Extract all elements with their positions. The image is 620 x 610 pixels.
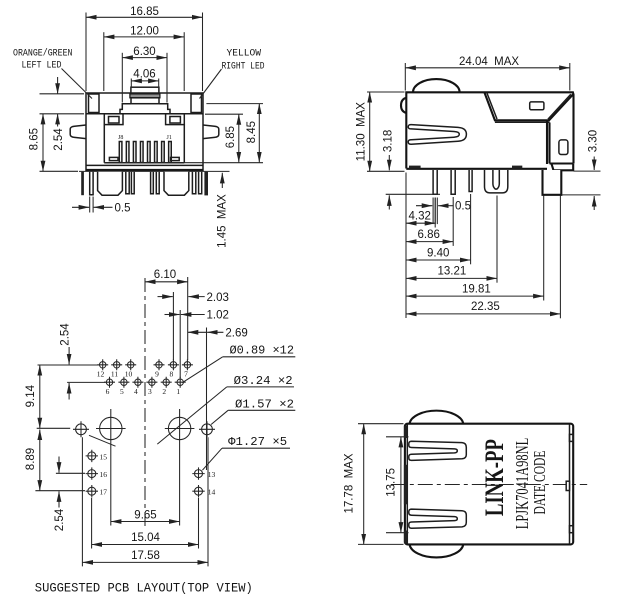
left reference line: [405, 173, 407, 319]
chamfer hole: [530, 102, 544, 110]
hole D1.57 right: [202, 424, 213, 435]
pin holes row 1 and 2: [97, 359, 193, 396]
svg-text:12: 12: [97, 370, 105, 379]
dim 8.89: [35, 490, 85, 492]
top bump arc: [410, 411, 464, 424]
bottom bump arc: [410, 544, 464, 557]
contact comb 8 fingers: [119, 142, 171, 163]
shield legs thin pair A: [126, 172, 134, 194]
right wing: [203, 125, 219, 139]
svg-text:9.40: 9.40: [427, 247, 449, 259]
svg-text:10: 10: [125, 370, 133, 379]
svg-text:8.45: 8.45: [246, 121, 258, 143]
svg-text:LEFT LED: LEFT LED: [22, 61, 62, 72]
bottom tab marks: [409, 166, 421, 169]
dim 2.54 lower: [56, 472, 85, 474]
svg-text:J8: J8: [118, 135, 123, 141]
vertical edge double: [547, 121, 550, 164]
svg-text:2: 2: [162, 387, 166, 396]
svg-text:24.04 MAX: 24.04 MAX: [459, 56, 519, 68]
dim 3.30: [574, 170, 601, 172]
chamfer face outer: [485, 93, 573, 121]
cavity bottom line: [104, 162, 184, 164]
pin A: [433, 170, 437, 194]
row1 labels: [97, 370, 188, 396]
dim 3.18: [388, 155, 390, 170]
ext pin bottom line: [386, 193, 440, 195]
ext tab right: [559, 196, 561, 319]
svg-text:1.02: 1.02: [207, 310, 229, 322]
dim 0.5 front: [89, 197, 91, 213]
front body bottom thick band: [86, 169, 203, 172]
dim 2.03: [158, 296, 173, 298]
cavity bottom left notch: [109, 157, 118, 160]
right edge notch top: [570, 434, 574, 441]
right LED: [191, 94, 202, 113]
dim 17.58: [81, 437, 83, 566]
right edge notch bottom: [570, 526, 574, 533]
svg-text:8: 8: [170, 370, 174, 379]
bottom spring: [409, 509, 467, 528]
top spring: [409, 441, 467, 460]
shield leg dark left: [81, 172, 84, 195]
hole D3.24 right: [168, 417, 190, 439]
holes 13,14: [192, 467, 204, 497]
svg-text:3.30: 3.30: [588, 130, 600, 152]
svg-text:6.85: 6.85: [225, 126, 237, 148]
center line dashed horizontal: [391, 484, 587, 486]
left wing: [70, 125, 86, 139]
svg-text:YELLOW: YELLOW: [227, 49, 262, 60]
svg-text:13.75: 13.75: [386, 468, 398, 497]
svg-text:0.5: 0.5: [115, 203, 131, 215]
svg-text:Ø1.57 ×2: Ø1.57 ×2: [235, 398, 294, 411]
dim 2.54 left: [57, 77, 59, 94]
base line: [86, 164, 203, 166]
svg-text:ORANGE/GREEN: ORANGE/GREEN: [13, 48, 73, 60]
hole D1.57 left: [76, 424, 87, 435]
svg-text:16.85: 16.85: [130, 6, 159, 18]
center post: [485, 170, 508, 193]
svg-text:7: 7: [184, 370, 188, 379]
dim 2.69: [188, 331, 207, 333]
right end hole: [559, 140, 568, 155]
cavity bottom right notch: [171, 157, 180, 160]
front body outline: [86, 93, 203, 171]
svg-text:11.30 MAX: 11.30 MAX: [355, 102, 367, 162]
svg-text:4.32: 4.32: [409, 211, 431, 223]
dim 8.65 left: [40, 93, 85, 95]
dim 15.04: [91, 498, 93, 549]
svg-text:5: 5: [120, 387, 124, 396]
plateau shoulders: [120, 104, 170, 114]
shield legs thin pair B: [151, 172, 160, 194]
svg-text:0.5: 0.5: [455, 201, 471, 213]
dim 1.02: [165, 314, 180, 316]
svg-text:2.54: 2.54: [54, 508, 66, 531]
dim 17.78 MAX: [358, 423, 404, 425]
right center notch: [566, 481, 569, 490]
svg-text:1.45 MAX: 1.45 MAX: [216, 194, 228, 248]
pin B: [451, 170, 455, 194]
svg-text:2.69: 2.69: [225, 328, 247, 340]
dim 1.45 MAX: [221, 173, 223, 188]
svg-text:12.00: 12.00: [130, 26, 159, 38]
svg-text:4: 4: [134, 387, 138, 396]
dim 2.54 upper: [38, 364, 99, 366]
svg-text:DATE CODE: DATE CODE: [530, 451, 549, 515]
svg-text:SUGGESTED PCB LAYOUT(TOP VIEW): SUGGESTED PCB LAYOUT(TOP VIEW): [35, 582, 253, 596]
left ear clip inner: [109, 117, 120, 124]
shield wide tab right: [164, 172, 189, 195]
svg-text:16: 16: [100, 470, 108, 479]
right ear clip inner: [170, 117, 181, 124]
labels 13 14: [208, 470, 216, 496]
svg-text:9.14: 9.14: [25, 384, 37, 407]
shield wide tab left: [98, 172, 123, 195]
latch tab protrusion: [131, 87, 159, 93]
svg-text:8.89: 8.89: [25, 448, 37, 470]
ext pinC center: [470, 194, 472, 264]
svg-text:11: 11: [111, 370, 118, 379]
shield leg dark right: [204, 172, 208, 196]
svg-text:19.81: 19.81: [462, 283, 491, 295]
svg-text:4.06: 4.06: [133, 68, 155, 80]
svg-text:1: 1: [176, 387, 180, 396]
right inner line: [569, 425, 571, 544]
svg-text:13: 13: [208, 470, 216, 479]
svg-text:17: 17: [100, 487, 108, 496]
svg-text:3: 3: [148, 387, 152, 396]
svg-text:6.10: 6.10: [154, 269, 176, 281]
ext pinA center: [434, 198, 436, 228]
latch tab hatched band: [130, 94, 160, 98]
svg-text:6.86: 6.86: [418, 229, 440, 241]
svg-text:RIGHT LED: RIGHT LED: [222, 62, 265, 73]
svg-text:13.21: 13.21: [438, 266, 467, 278]
ext pinB center: [452, 197, 454, 246]
pin C: [469, 170, 472, 192]
left edge strip line: [406, 425, 408, 544]
svg-text:17.58: 17.58: [131, 550, 160, 562]
svg-text:J1: J1: [167, 135, 172, 141]
right end bottom foot: [550, 164, 574, 171]
svg-text:6: 6: [106, 387, 110, 396]
shelf line: [86, 113, 203, 115]
dim 9.14: [37, 427, 70, 429]
holes 15,16,17: [86, 450, 98, 498]
center post inner slot: [493, 170, 499, 189]
left ear clip outer: [104, 114, 123, 125]
center line dashed: [144, 278, 146, 530]
side body outline: [406, 92, 573, 168]
svg-text:9.65: 9.65: [134, 509, 156, 521]
dim 0.5 side: [432, 198, 434, 225]
svg-text:2.54: 2.54: [53, 128, 65, 151]
svg-text:6.30: 6.30: [133, 46, 155, 58]
cavity walls: [104, 125, 184, 163]
side body bottom edge: [406, 168, 547, 170]
svg-text:3.18: 3.18: [383, 130, 395, 152]
svg-text:Φ1.27 ×5: Φ1.27 ×5: [228, 436, 287, 449]
dim 13.75: [386, 436, 409, 438]
svg-text:14: 14: [208, 487, 216, 496]
svg-text:LPJK7041A98NL: LPJK7041A98NL: [512, 438, 532, 530]
svg-text:LINK-PP: LINK-PP: [480, 439, 509, 516]
right ear clip outer: [166, 114, 185, 125]
hole D3.24 left: [100, 417, 122, 439]
bottom line extension: [79, 170, 230, 172]
body outline: [405, 424, 573, 545]
stray diagonal near left big hole: [89, 435, 116, 446]
leader right LED: [200, 69, 222, 99]
chamfer face inner doubles: [487, 93, 571, 123]
dim 6.85 right: [205, 113, 243, 115]
latch tab lower rect: [131, 98, 159, 104]
svg-text:15.04: 15.04: [131, 532, 160, 544]
left nose bump: [401, 98, 406, 113]
left LED: [89, 94, 100, 113]
svg-text:15: 15: [100, 453, 108, 462]
leader left LED: [62, 69, 93, 99]
shield leg thin 1: [90, 172, 93, 195]
ext post center: [496, 196, 498, 283]
svg-text:Ø3.24 ×2: Ø3.24 ×2: [234, 375, 293, 388]
svg-text:8.65: 8.65: [29, 128, 41, 150]
dim 9.65: [110, 444, 112, 526]
ext tab left: [543, 196, 545, 301]
side spring upper prong: [408, 125, 466, 145]
dim 8.45 right: [206, 103, 263, 105]
svg-text:2.54: 2.54: [60, 323, 72, 346]
right solder tab: [543, 170, 562, 195]
dome bump top: [413, 79, 460, 92]
svg-text:17.78 MAX: 17.78 MAX: [343, 453, 355, 513]
shield legs thin pair C: [192, 172, 201, 194]
svg-text:2.03: 2.03: [207, 292, 229, 304]
big holes row: [73, 409, 215, 444]
left strip dark segments: [404, 426, 408, 439]
svg-text:22.35: 22.35: [471, 301, 500, 313]
dim 11.30 MAX: [367, 91, 405, 93]
labels 15 16 17: [100, 453, 108, 497]
svg-text:Ø0.89 ×12: Ø0.89 ×12: [230, 345, 295, 358]
svg-text:9: 9: [155, 370, 159, 379]
